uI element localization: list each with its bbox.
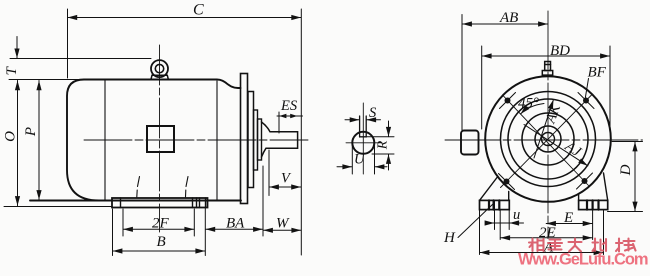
- dimension BA: [206, 166, 264, 236]
- dimension U: [337, 145, 387, 174]
- svg-text:AB: AB: [499, 10, 518, 26]
- eyebolt base: [151, 75, 168, 79]
- dimension u: [486, 201, 524, 230]
- svg-text:2F: 2F: [152, 216, 170, 232]
- terminal plug on top: [542, 62, 552, 76]
- svg-text:C: C: [193, 2, 204, 19]
- svg-text:W: W: [276, 216, 290, 232]
- bolt dot SE: [577, 173, 593, 189]
- foot pad side view: [112, 198, 208, 208]
- right foot pad: [579, 200, 608, 209]
- shaft section circle: [352, 132, 374, 154]
- dimension R: [367, 121, 394, 170]
- dimension T: [9, 37, 151, 80]
- AK radius line: [534, 100, 554, 159]
- dimension 2E: [500, 210, 592, 240]
- svg-text:H: H: [443, 230, 456, 246]
- svg-text:ES: ES: [280, 98, 298, 114]
- dimension 2F: [123, 209, 194, 236]
- flange rect R1: [241, 74, 248, 204]
- dimension W: [263, 229, 301, 231]
- dimension ES: [277, 115, 303, 117]
- left foot pad: [480, 200, 510, 209]
- pad right end cells: [193, 198, 206, 208]
- watermark chinese characters: [529, 239, 636, 252]
- keyway slot: [360, 116, 367, 137]
- dimension P: [38, 81, 40, 200]
- bolt dot SW: [499, 174, 515, 190]
- bolt dot NE: [578, 93, 594, 109]
- flange rect R4: [258, 119, 262, 160]
- svg-text:U: U: [354, 152, 366, 168]
- motor body outline: [30, 80, 241, 201]
- dimension AB: [462, 15, 548, 131]
- right foot gusset: [604, 173, 608, 200]
- svg-text:B: B: [157, 234, 166, 250]
- svg-text:R: R: [376, 140, 391, 150]
- dimension O: [4, 81, 112, 207]
- fan cowl seam line: [104, 80, 106, 200]
- dimension B: [113, 208, 206, 256]
- svg-text:BF: BF: [588, 65, 607, 81]
- section centerlines: [362, 103, 364, 174]
- ring circle r26: [522, 113, 574, 165]
- diagonal centerline NW-SE: [503, 95, 589, 186]
- end bracket step line: [216, 81, 218, 200]
- foot hole tick right: [186, 177, 189, 198]
- vertical centerline through eyebolt and body: [159, 45, 161, 232]
- ring circle r47: [501, 92, 596, 187]
- dimension D: [608, 142, 643, 212]
- left side box: [461, 131, 479, 155]
- ES thread tick on shaft: [278, 112, 280, 133]
- lifting eyebolt ring: [151, 60, 168, 77]
- AJ radius line: [524, 125, 588, 166]
- bolt dot NW: [500, 93, 516, 109]
- left foot gusset: [480, 178, 498, 201]
- horizontal centerline of shaft: [84, 139, 308, 141]
- hub circle r13: [535, 126, 561, 152]
- horizontal centerline: [445, 139, 643, 141]
- ring circle r40: [508, 99, 588, 179]
- 45 degree arc with arrow: [521, 104, 545, 115]
- svg-text:45°: 45°: [518, 96, 539, 112]
- svg-text:E: E: [563, 210, 573, 226]
- shaft extension: [262, 122, 298, 157]
- outer frame circle: [485, 76, 611, 202]
- flange rect R2: [248, 92, 254, 188]
- dimension S: [345, 119, 381, 121]
- dimension E: [546, 223, 592, 225]
- flange rect R3: [254, 110, 258, 170]
- svg-text:BA: BA: [226, 216, 245, 232]
- nameplate square: [147, 126, 174, 152]
- H leader line: [458, 204, 494, 238]
- shaft circle r6.5: [542, 133, 555, 146]
- svg-text:D: D: [618, 164, 634, 176]
- vertical centerline: [547, 11, 549, 239]
- dimension V: [269, 150, 301, 196]
- svg-text:S: S: [369, 105, 377, 121]
- dimension BD: [482, 46, 610, 129]
- pad divider left: [120, 198, 122, 208]
- diagonal centerline NE-SW: [501, 95, 593, 188]
- foot hole tick left: [137, 177, 140, 198]
- svg-text:u: u: [513, 207, 520, 223]
- svg-text:BD: BD: [550, 43, 570, 59]
- dimension A: [480, 210, 604, 255]
- BF leader line: [585, 79, 588, 99]
- svg-text:P: P: [23, 127, 39, 137]
- svg-text:O: O: [3, 131, 19, 142]
- right foot inner edge: [578, 194, 580, 200]
- svg-text:Www.GeLufu.Com: Www.GeLufu.Com: [518, 251, 648, 269]
- left foot inner edge: [508, 192, 510, 201]
- dimension C: [68, 9, 302, 255]
